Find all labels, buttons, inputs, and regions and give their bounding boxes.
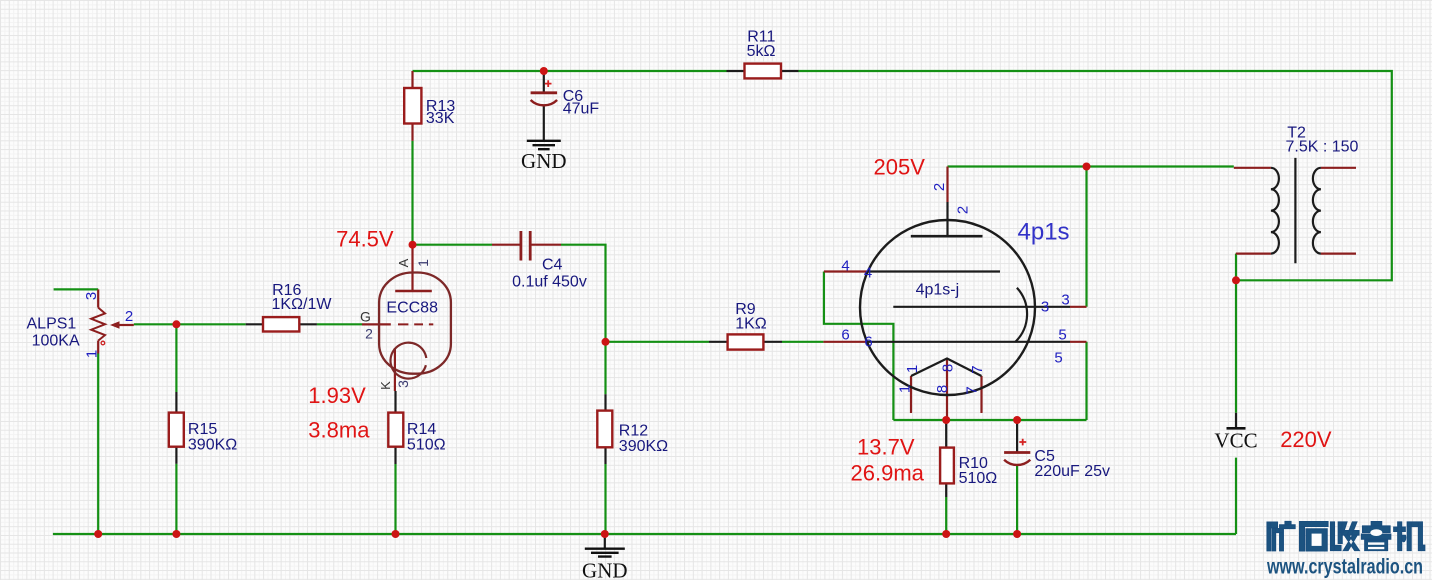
svg-text:www.crystalradio.cn: www.crystalradio.cn — [1266, 556, 1423, 579]
wire ALPS pin1 to bottom rail — [97, 354, 99, 535]
svg-text:1: 1 — [904, 365, 921, 373]
node T2 junction — [1232, 276, 1240, 284]
resistor R9 — [728, 334, 764, 349]
wire R12 top — [604, 342, 606, 394]
wire R16 left lead — [246, 323, 263, 325]
wire bottom ground rail — [53, 533, 1236, 535]
wire 4p1s plate stub — [946, 202, 948, 236]
potentiometer ALPS1 wiper arrow — [110, 321, 120, 329]
wire C5 top lead — [1016, 420, 1018, 453]
capacitor C6 flat plate — [531, 91, 558, 94]
svg-text:3: 3 — [83, 292, 100, 300]
svg-text:6: 6 — [864, 334, 872, 351]
tube 4p1s grid2 line — [867, 341, 1070, 343]
wire T2 primary top lead — [1234, 167, 1271, 169]
transformer T2 secondary winding — [1313, 168, 1321, 254]
capacitor C5 curved plate — [1004, 460, 1030, 465]
node C6 top — [540, 67, 548, 75]
wire VCC stub — [1235, 413, 1237, 429]
svg-text:100KA: 100KA — [32, 332, 80, 349]
node 205V — [1083, 163, 1091, 171]
power symbol VCC bar — [1227, 427, 1246, 430]
wire R9 to 4p1s pin 6 — [782, 341, 823, 343]
wire pot wiper to R16 — [134, 323, 246, 325]
node pot wiper — [172, 320, 180, 328]
wire R15 top lead — [175, 392, 177, 413]
wire R15 bottom lead — [175, 447, 177, 464]
svg-text:C4: C4 — [542, 257, 563, 274]
node rail C5 — [1013, 530, 1021, 538]
wire R11 right lead — [781, 70, 799, 72]
node rail GND — [601, 530, 609, 538]
tube 4p1s beam arc — [1015, 288, 1027, 342]
svg-text:2: 2 — [931, 183, 948, 191]
resistor R16 — [263, 317, 299, 331]
wire R14 bottom lead — [394, 447, 396, 464]
wire R13 bottom to 74.5V node — [411, 141, 413, 245]
wire right tie lower pin 5 to filament — [1085, 342, 1087, 420]
resistor R10 — [940, 448, 954, 484]
tube 4p1s cathode V — [911, 359, 982, 377]
pin ECC88 anode — [411, 245, 413, 291]
wire GND2 stub — [604, 534, 606, 549]
svg-text:4: 4 — [841, 258, 849, 275]
potentiometer ALPS1 dot marker — [101, 341, 105, 345]
capacitor C6 curved plate — [531, 100, 558, 105]
pin 4p1s 4 — [824, 270, 868, 272]
svg-text:510Ω: 510Ω — [959, 470, 998, 487]
svg-text:390KΩ: 390KΩ — [188, 437, 237, 454]
pin 4p1s 8 — [946, 359, 948, 421]
svg-text:1: 1 — [83, 350, 100, 358]
svg-text:7.5K : 150: 7.5K : 150 — [1286, 138, 1359, 155]
svg-text:7: 7 — [963, 386, 980, 394]
wire C4 right lead — [531, 244, 561, 246]
svg-text:G: G — [360, 309, 371, 325]
wire R12 top lead — [604, 394, 606, 410]
wire R14 bottom — [394, 464, 396, 534]
capacitor C6 plus sign — [545, 80, 552, 87]
wire C4 right, corner down to R9 — [561, 245, 709, 342]
tube 4p1s screen line — [893, 306, 1070, 308]
wire R14 top lead — [394, 391, 396, 413]
wire right tie upper to pin 3 — [1085, 167, 1087, 307]
svg-text:3: 3 — [1061, 292, 1069, 309]
pin ECC88 G — [362, 323, 391, 325]
svg-text:2: 2 — [365, 326, 373, 342]
pin 4p1s 1 — [910, 376, 912, 413]
capacitor C4 plates — [521, 231, 530, 261]
resistor R13 — [404, 88, 421, 124]
capacitor C5 flat plate — [1004, 451, 1030, 454]
svg-text:3.8ma: 3.8ma — [308, 417, 370, 442]
svg-text:4: 4 — [864, 265, 872, 282]
wire filament bottom — [893, 419, 1086, 421]
node R12 top — [602, 338, 610, 346]
pin 4p1s 3 — [1070, 306, 1087, 308]
svg-text:A: A — [396, 258, 411, 267]
potentiometer ALPS1 zigzag body — [91, 308, 105, 341]
svg-text:R14: R14 — [407, 421, 436, 438]
tube ECC88 grid dashes — [398, 323, 433, 325]
svg-text:K: K — [378, 381, 393, 390]
pin 4p1s 7 — [980, 376, 982, 413]
svg-text:1: 1 — [415, 259, 431, 267]
wire R15 bottom — [175, 464, 177, 534]
resistor R14 — [388, 413, 403, 447]
pin 4p1s 5 — [1070, 341, 1087, 343]
wire R12 bottom lead — [604, 447, 606, 464]
wire ALPS wiper lead — [119, 324, 134, 326]
svg-text:7: 7 — [969, 365, 986, 373]
wire R10 bottom — [945, 497, 947, 534]
ground symbol GND1 bars — [527, 141, 561, 149]
wire R13 bottom lead — [411, 124, 413, 141]
svg-text:33K: 33K — [426, 110, 455, 127]
svg-text:R15: R15 — [188, 421, 217, 438]
wire R9 left lead — [709, 341, 728, 343]
wire R13 top lead — [411, 71, 413, 88]
svg-text:13.7V: 13.7V — [857, 434, 915, 459]
ground symbol GND2 bars — [585, 549, 625, 557]
svg-text:4p1s-j: 4p1s-j — [916, 281, 960, 298]
svg-text:74.5V: 74.5V — [336, 227, 394, 252]
svg-text:5kΩ: 5kΩ — [747, 43, 776, 60]
svg-text:2: 2 — [954, 206, 971, 214]
svg-text:8: 8 — [939, 364, 956, 372]
wire R10 bottom lead — [945, 483, 947, 497]
wire VCC riser upper — [1235, 280, 1237, 413]
tube 4p1s plate bar — [911, 235, 983, 238]
svg-text:220uF 25v: 220uF 25v — [1034, 463, 1110, 480]
node 74.5V — [409, 241, 417, 249]
svg-text:6: 6 — [841, 327, 849, 344]
wire top rail left — [413, 70, 727, 72]
wire VCC lower to rail — [1235, 458, 1237, 534]
capacitor C5 plus sign — [1019, 439, 1026, 446]
node rail R14 — [392, 530, 400, 538]
wire R15 top — [175, 324, 177, 392]
svg-text:1KΩ/1W: 1KΩ/1W — [272, 296, 333, 313]
svg-text:510Ω: 510Ω — [407, 437, 446, 454]
wire node to C4 left — [413, 244, 493, 246]
resistor R12 — [597, 411, 612, 448]
wire C6 bottom lead — [543, 106, 545, 141]
svg-text:VCC: VCC — [1214, 429, 1257, 453]
tube ECC88 cathode arc — [390, 343, 426, 379]
svg-text:3: 3 — [1041, 299, 1049, 316]
transformer T2 core — [1294, 158, 1296, 263]
svg-text:GND: GND — [521, 149, 567, 173]
node C5 top — [1013, 416, 1021, 424]
tube ECC88 anode bar — [395, 290, 432, 292]
wire R16 to ECC88 grid — [317, 323, 362, 325]
wire T2 primary bottom lead — [1236, 253, 1271, 255]
tube 4p1s grid1 line — [868, 270, 1000, 272]
wire R11 left lead — [727, 70, 745, 72]
node pin8 filament — [942, 416, 950, 424]
wire ALPS pin3 lead — [97, 289, 99, 307]
svg-text:390KΩ: 390KΩ — [619, 438, 668, 455]
wire C4 left lead — [492, 244, 520, 246]
pin 4p1s 2 — [946, 167, 948, 203]
wire ALPS pin3 stub — [54, 288, 99, 290]
svg-text:ECC88: ECC88 — [386, 300, 438, 317]
svg-text:R12: R12 — [619, 422, 648, 439]
svg-text:0.1uf 450v: 0.1uf 450v — [512, 274, 587, 291]
node rail R10 — [942, 530, 950, 538]
wire pin4 loop — [824, 272, 894, 421]
svg-text:3: 3 — [395, 380, 411, 388]
svg-text:220V: 220V — [1280, 427, 1332, 452]
node rail ALPS — [94, 530, 102, 538]
watermark logo glyphs — [1267, 521, 1425, 551]
transformer T2 primary winding — [1271, 168, 1279, 254]
node rail R15 — [172, 530, 180, 538]
wire T2 primary bottom to junction — [1235, 254, 1237, 281]
wire C5 bottom — [1016, 466, 1018, 535]
svg-text:1: 1 — [896, 385, 913, 393]
resistor R11 — [745, 64, 782, 79]
svg-text:GND: GND — [582, 559, 628, 580]
pin 4p1s 6 — [823, 341, 867, 343]
wire T2 secondary bottom lead — [1321, 253, 1356, 255]
svg-text:8: 8 — [934, 385, 951, 393]
svg-text:5: 5 — [1054, 350, 1062, 367]
wire R12 bottom — [604, 464, 606, 534]
svg-text:2: 2 — [125, 308, 133, 325]
svg-text:4p1s: 4p1s — [1018, 219, 1070, 246]
svg-text:26.9ma: 26.9ma — [851, 460, 925, 485]
wire 4p1s plate row to T2 — [948, 165, 1234, 167]
tube 4p1s body — [860, 220, 1035, 395]
svg-text:205V: 205V — [874, 155, 926, 180]
wire R16 right lead — [299, 323, 317, 325]
svg-text:1.93V: 1.93V — [308, 383, 366, 408]
wire R9 right lead — [763, 341, 782, 343]
resistor R15 — [169, 413, 184, 447]
pin ECC88 cathode — [394, 348, 396, 391]
svg-text:47uF: 47uF — [563, 100, 600, 117]
wire T2 secondary top lead — [1321, 167, 1356, 169]
svg-text:5: 5 — [1058, 327, 1066, 344]
wire C6 top lead — [543, 71, 545, 93]
wire top rail right and right-side drop to T2 junction — [799, 71, 1392, 280]
svg-text:ALPS1: ALPS1 — [27, 316, 77, 333]
wire ALPS pin1 lead — [97, 341, 99, 354]
wire R10 top lead — [945, 420, 947, 448]
tube ECC88 body — [379, 273, 451, 374]
svg-text:1KΩ: 1KΩ — [735, 315, 767, 332]
